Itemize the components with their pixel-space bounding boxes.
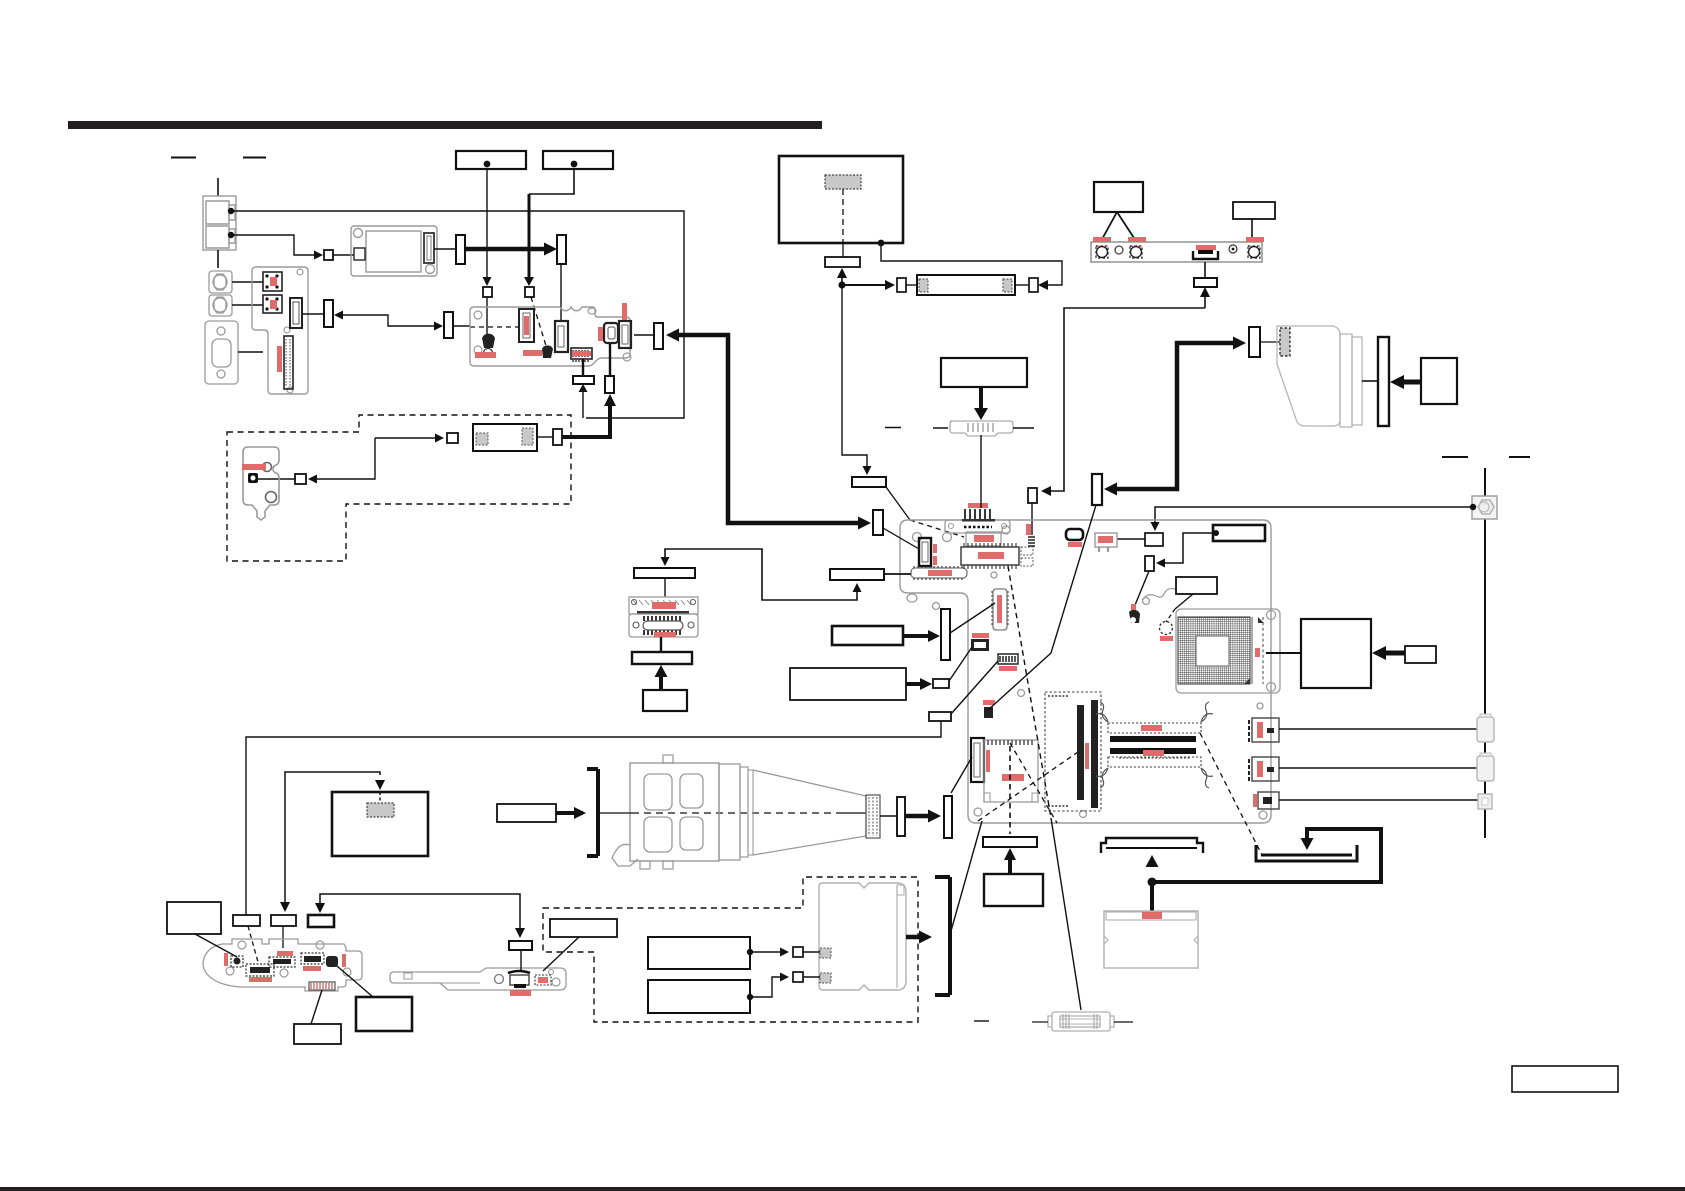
drive center line	[600, 812, 632, 814]
arrow up into inverter bar	[841, 273, 843, 285]
thick arrow into board-side bar	[905, 814, 936, 819]
dashed stub in touch pad box	[379, 792, 381, 803]
motherboard screw holes	[907, 526, 1267, 819]
inverter board	[917, 275, 1015, 295]
leader bar to LVDS	[883, 528, 919, 549]
wire port to audio board	[238, 351, 263, 353]
antenna center connector	[1193, 251, 1218, 259]
leader bar to LVDS area	[886, 487, 910, 520]
small connector above battery conn	[984, 707, 993, 718]
connector box left of inverter	[897, 278, 906, 292]
wire modem jack to bluetooth box	[231, 235, 318, 255]
wire speaker link with arrows	[320, 894, 520, 934]
RF antenna jack	[1472, 496, 1497, 519]
inductor component on board	[1066, 529, 1083, 540]
connector bar above motherboard (inverter lead)	[852, 477, 886, 487]
redacted dash right 1	[1442, 456, 1468, 458]
HDD label box 2	[648, 980, 750, 1013]
wire USB2 to plug	[1279, 767, 1477, 769]
wire audio board slot to left bar with arrow	[302, 313, 324, 315]
thick arrow into small bar	[906, 682, 928, 686]
keyboard label box	[941, 358, 1027, 387]
thick wire BT cable with arrow	[465, 247, 548, 252]
power button	[326, 956, 338, 967]
small connector bar	[933, 679, 949, 688]
wire antenna connector down to bar	[1204, 262, 1206, 278]
modem jack component on board	[1095, 533, 1117, 547]
audio connector block 2	[263, 295, 282, 313]
mushroom pad CN2 on IO board	[542, 345, 553, 358]
connector bar (left of wing)	[830, 569, 884, 580]
LVDS connector on board	[919, 538, 931, 566]
multi-pin comb connector on IO board	[571, 348, 592, 359]
power switch board outline	[203, 939, 362, 991]
1394 connector on board edge	[1253, 792, 1279, 809]
label box L2	[543, 151, 613, 169]
wire L1 box to board pad	[486, 297, 488, 336]
leader to battery connector on board	[951, 757, 972, 793]
HDD module drawing	[819, 883, 906, 990]
node dot in L2	[571, 161, 578, 168]
wire down-left to bracket box	[311, 438, 375, 479]
dashed wire SD slot to connector bar	[1009, 746, 1011, 834]
thick arrow keyboard label to keyboard	[979, 387, 983, 409]
connector bar (drive cable)	[897, 797, 905, 836]
CN0902 connector	[971, 639, 989, 651]
bluetooth connector slot	[424, 233, 434, 263]
arrow up into antenna bar	[1204, 291, 1206, 308]
label box (RTC)	[1176, 577, 1217, 594]
comb connector CN8510 on power board	[309, 982, 335, 990]
thick wire LCD cable to motherboard	[1110, 343, 1241, 489]
LCD cable label box	[1421, 358, 1457, 404]
label box (below comb)	[294, 1024, 341, 1044]
connector bar above power board 1	[233, 915, 260, 926]
bottom-right empty label box	[1512, 1066, 1618, 1092]
connector bar right of IO board	[654, 323, 663, 349]
IO daughter board outline	[470, 307, 630, 366]
connector bar below HDD connector	[632, 652, 692, 664]
label box (HDD)	[643, 690, 687, 711]
funnel end connector	[866, 795, 880, 838]
thick wire FDD/DIMM link	[1152, 829, 1381, 882]
antenna small eyelet	[1229, 245, 1237, 253]
wire box down to board connector	[1031, 503, 1033, 535]
wire module to bracket with arrows	[375, 438, 440, 479]
wireless antenna connector on board	[1026, 524, 1031, 535]
CD/DVD drive label box	[497, 804, 556, 822]
speaker connector CN8520	[508, 971, 530, 973]
wire dot to inverter with arrow	[842, 284, 888, 286]
LCD lamp pad	[825, 175, 861, 189]
node dot in L1	[484, 161, 491, 168]
drive body	[630, 763, 719, 861]
thick arrow HDD module to bracket	[906, 935, 928, 940]
audio connector block 1	[263, 272, 282, 291]
audio board screw holes	[297, 269, 303, 275]
junction dot inverter wire	[838, 281, 845, 288]
wire bracket to box	[258, 478, 295, 480]
LCD cable connector bar left	[1249, 327, 1260, 357]
connector box at modem jack	[1145, 533, 1163, 546]
right edge vertical wire	[1484, 468, 1486, 838]
redacted label dash	[243, 157, 266, 159]
label box (big, lower left of board)	[790, 668, 906, 700]
dashed leader cross 1	[978, 752, 1078, 821]
redacted label dash	[171, 157, 196, 159]
tall comb connector (docking)	[993, 589, 1007, 630]
leader comb to box	[311, 990, 322, 1024]
motherboard outline	[900, 520, 1271, 823]
EEPROM chip on board	[961, 547, 1019, 565]
connector box right of inverter	[1015, 284, 1029, 286]
thick arrow into bar	[903, 634, 936, 638]
right connector on IO board	[619, 321, 631, 348]
connector box right of modem module	[553, 429, 562, 445]
CN8513 button	[224, 953, 228, 966]
label box (touch pad FPC)	[832, 626, 903, 645]
drive rear columns	[719, 764, 740, 860]
leader box to mushroom connector	[1133, 571, 1149, 610]
wire module to cable bar	[434, 248, 456, 250]
CN8512 connector	[301, 953, 324, 964]
inline connector box L2	[525, 287, 534, 297]
wire label to CN box	[1160, 533, 1216, 563]
dashed wire inside IO board to VGA connector	[470, 326, 519, 328]
LCD cable pad	[1280, 328, 1290, 356]
HDD connector bar above	[634, 568, 695, 578]
page bottom rule	[0, 1187, 1685, 1191]
wire L2 down (thick segment) with arrow	[529, 169, 574, 194]
wire bar to LCD cable	[1260, 341, 1280, 343]
CPU socket pin grid	[1178, 617, 1250, 684]
dashed circle pad	[1160, 622, 1173, 635]
DIMM latch arms	[1096, 702, 1213, 788]
connector bar (BT cable right)	[557, 235, 566, 264]
wire jack2 to audio board	[232, 304, 263, 306]
dashed leader EEPROM to FDD link	[1008, 566, 1051, 818]
wire funnel to bar	[880, 815, 897, 817]
USB plug 2	[1477, 756, 1494, 781]
node dot on panel bottom	[878, 240, 885, 247]
HDD bay bracket	[935, 877, 950, 995]
leader button to box	[337, 966, 373, 997]
CPU label box	[1301, 619, 1371, 688]
mushroom connector on board	[1129, 610, 1140, 623]
CN8500 connector	[246, 964, 274, 976]
leader to dashed pad	[1175, 594, 1193, 609]
antenna pad 3	[1249, 247, 1260, 258]
arrowhead left into bar	[334, 311, 343, 320]
wireless antenna label box A	[1094, 182, 1143, 212]
arrowhead right into right bar	[434, 322, 443, 331]
leader to comb CN0751	[951, 661, 998, 714]
center connector on IO board	[555, 321, 568, 352]
wire box to modem jack	[1117, 538, 1145, 540]
horizontal connector bar (power board link)	[929, 712, 951, 721]
wire HDD connector to bar below	[660, 637, 662, 652]
audio jack 2	[209, 295, 232, 316]
modem connector stub under IO board	[605, 376, 614, 393]
leader label to speaker connector	[543, 937, 579, 971]
wire RF jack to modem jack box	[1155, 507, 1473, 527]
thick-border label box (modem cable)	[1213, 525, 1265, 541]
USB connector 1 on board edge	[1249, 718, 1279, 742]
LAN/modem stacked jack	[203, 196, 236, 250]
dashes flanking keyboard flex	[885, 427, 1034, 430]
LCD cable tall connector bar	[1378, 337, 1389, 426]
connector bar above power board 3 (thick)	[308, 915, 334, 927]
USB plug 1	[1477, 717, 1494, 742]
LCD cable body	[1277, 326, 1340, 426]
memory module 2	[1104, 911, 1198, 968]
USB connector 2 on board edge	[1249, 757, 1279, 781]
connector bar (BT cable left)	[456, 235, 465, 264]
wire L1 down with arrow	[486, 169, 488, 278]
wire from HDD top bar loop with arrow	[665, 549, 857, 600]
wire bar down to IO board connector	[560, 264, 562, 322]
mini-USB connector on IO board	[604, 323, 618, 343]
connector box (modem lead)	[1145, 556, 1154, 571]
VGA comb connector on audio board	[284, 336, 293, 389]
thick arrow into CPU label	[1378, 651, 1405, 656]
audio jack 1	[209, 271, 232, 293]
wire stub above LAN jack	[217, 178, 219, 196]
connector bar (audio cable left)	[324, 300, 333, 327]
FDD cable component	[1048, 1012, 1114, 1031]
drive cable funnel	[753, 770, 866, 855]
speaker latch assembly	[390, 968, 566, 990]
red designator CN3000	[242, 464, 266, 470]
bluetooth board-to-wire box	[354, 248, 365, 260]
comb connector CN (left bottom of wing)	[911, 568, 967, 578]
label box below (SD)	[984, 874, 1043, 906]
leader bracket to board	[951, 821, 982, 931]
dashed enclosure (modem kit)	[227, 415, 571, 561]
memory bar staple connector	[1101, 838, 1203, 853]
audio board outline	[252, 267, 308, 394]
node dot modem line	[228, 232, 234, 238]
wire from panel dot to inverter right box	[881, 243, 1062, 285]
leader to CN0902	[949, 647, 972, 681]
antenna hole	[1115, 246, 1123, 254]
red designator vertical on IO board	[622, 303, 627, 320]
touch pad FPC pad	[367, 803, 394, 817]
thick arrow from label into bar	[659, 672, 663, 690]
dashed enclosure (HDD kit)	[543, 877, 918, 1022]
thick arrow into battery bracket	[556, 811, 583, 815]
wire module to right box	[537, 436, 553, 438]
VGA connector on IO board	[519, 309, 534, 342]
serial/VGA port	[205, 321, 238, 384]
dashed leader DIMM to FDD path	[1200, 733, 1262, 855]
wire inverter junction down to motherboard	[842, 285, 867, 470]
CPU socket outer plate	[1176, 609, 1280, 693]
connector box (antenna to board)	[1028, 488, 1037, 503]
connector bar (vertical)	[941, 609, 950, 660]
motherboard cutout curve near CPU	[1142, 589, 1175, 600]
connector bar above speaker	[509, 941, 532, 950]
keyboard flex drawing	[950, 421, 1013, 436]
wireless antenna bar	[1091, 242, 1262, 262]
wire bar to IO board	[453, 325, 470, 327]
LCD panel box	[779, 156, 903, 243]
wire stubs at FDD cable	[1032, 1021, 1048, 1023]
wire USB1 to plug	[1279, 728, 1477, 730]
speaker aux pads	[535, 975, 551, 985]
node dot LAN	[228, 208, 234, 214]
node dot RF jack	[1470, 504, 1476, 510]
wire CPU to label	[1266, 652, 1301, 654]
leader V lines to antenna pads	[1101, 212, 1136, 241]
inline connector box L1	[483, 287, 492, 297]
small inline connector box	[324, 250, 333, 260]
thick wire modem module to IO board with arrow	[562, 400, 610, 437]
wire antenna to wireless card connector	[1045, 308, 1205, 491]
drive bay bracket	[587, 769, 598, 856]
dash left of FDD cable	[974, 1020, 989, 1022]
FDD staple connector	[1256, 845, 1357, 861]
dashed leader to CN8500	[248, 926, 258, 962]
board-side connector bar	[944, 796, 952, 838]
mini-PCI connector on board	[1045, 692, 1101, 811]
leader bar to docking comb	[950, 603, 995, 633]
node dot at label	[1213, 530, 1219, 536]
wire bar to HDD connector	[664, 578, 666, 597]
wire audio cable	[343, 315, 438, 326]
thick wire IO board to motherboard	[672, 335, 866, 523]
connector CN3000 pad on bracket	[248, 473, 258, 483]
HDD connector upper part	[629, 597, 698, 614]
wire jack1 to audio board	[232, 281, 263, 283]
HDD label box 1	[648, 937, 750, 969]
CN8511 connector	[277, 951, 293, 956]
connector box at modem bracket	[295, 474, 306, 484]
wire LAN jack to IO board (long loop)	[231, 211, 684, 418]
wire keyboard flex to board connector	[980, 435, 982, 508]
wire bar to comb	[884, 573, 911, 575]
dashed leader cross 2	[1010, 743, 1057, 823]
wire cable to tall bar	[1362, 380, 1378, 382]
SD card slot on board	[984, 740, 1038, 802]
dashed leader L2 box to board pad	[531, 297, 547, 349]
wire bar2 into board connector	[282, 926, 284, 948]
comb connector CN0751	[998, 654, 1018, 664]
power board screws	[238, 941, 246, 949]
label box L1	[456, 151, 526, 169]
wire 1394 to plug	[1279, 799, 1478, 801]
wire stub below jack	[217, 250, 219, 268]
wire IO board to bar	[634, 334, 654, 336]
tall white bar (video cable)	[1092, 474, 1102, 505]
keyboard connector CN on board top	[945, 503, 1010, 533]
thick arrow from label into bar	[1008, 858, 1012, 874]
wire label1 to pad	[750, 951, 785, 953]
mushroom pad CN (audio cable) on IO board	[482, 334, 495, 348]
dashed drop inside panel	[842, 189, 844, 243]
antenna cable bar	[1194, 278, 1217, 287]
label box (speaker)	[550, 919, 617, 937]
bar below IO board multi-pin	[582, 359, 584, 376]
long wire to power switch board	[246, 721, 941, 915]
DIMM slot B	[1110, 748, 1196, 754]
wire label2 to pad	[750, 977, 785, 997]
thick arrow from label into tall bar	[1396, 380, 1421, 385]
modem bracket plate	[243, 447, 279, 520]
connector bar below board (SD)	[983, 837, 1037, 847]
title rule bar	[68, 121, 822, 129]
arrowhead right into small box	[314, 251, 323, 260]
label box (power board left)	[167, 902, 221, 934]
IO board screw holes	[474, 311, 482, 319]
leader continues to FDD cable	[1051, 818, 1081, 1010]
wire speaker bar to connector	[520, 950, 522, 971]
1394 plug	[1478, 794, 1492, 809]
arrow up into IO-board bar	[582, 389, 584, 418]
HDD connector lower part	[629, 614, 698, 637]
connector bar above power board 2	[271, 915, 296, 926]
antenna pad 1	[1097, 247, 1108, 258]
label box (power button, thick)	[356, 997, 412, 1031]
CN701 connector	[966, 532, 1001, 546]
inverter cable bar	[825, 257, 860, 267]
leader to board	[195, 934, 237, 957]
bluetooth module	[351, 226, 437, 276]
antenna pad 2	[1131, 247, 1142, 258]
wireless antenna label box B	[1233, 202, 1275, 219]
wire touch pad to power board with arrows	[285, 772, 380, 906]
touch pad box	[332, 792, 428, 856]
connector bar (audio cable right)	[444, 312, 453, 338]
DIMM slot A	[1108, 723, 1201, 733]
battery connector on board	[971, 738, 984, 782]
modem module box	[473, 424, 537, 451]
connector box left of modem module	[447, 433, 458, 443]
wire box to bluetooth module	[333, 254, 354, 256]
junction dot	[1148, 878, 1157, 887]
wire panel to inverter bar	[842, 243, 844, 257]
small box right of CPU label	[1405, 646, 1436, 663]
wire dot to memory module	[1150, 882, 1154, 911]
redacted dash right 2	[1509, 456, 1530, 458]
audio board cable slot connector	[290, 298, 302, 328]
CPU socket cam strip	[1251, 617, 1253, 684]
connector bar (LCD harness) on board	[873, 510, 883, 535]
leader tall bar to small connector	[988, 505, 1096, 710]
